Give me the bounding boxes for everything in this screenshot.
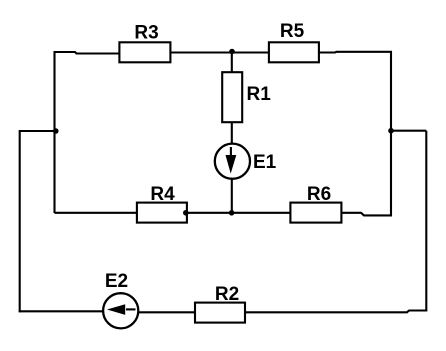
svg-text:R5: R5 [280,21,305,42]
svg-text:R3: R3 [134,23,158,44]
wire R1 to E1 [231,122,233,144]
node center bottom junction [229,210,235,216]
svg-text:R4: R4 [150,184,175,205]
node left junction [53,128,59,134]
current source E2 [103,271,138,328]
wire top-left horizontal [55,52,121,54]
wire right vertical [390,51,392,215]
wire left connector horizontal [20,130,55,132]
wire far-left vertical [19,130,21,312]
wire E2 to left [19,310,103,312]
svg-text:E1: E1 [253,152,277,173]
wire top middle horizontal [170,51,269,53]
wire R4 to center node [187,212,291,214]
svg-text:E2: E2 [105,271,128,292]
node top-center junction [229,49,235,55]
resistor R2 [195,284,245,323]
wire bottom right [246,311,427,313]
current source E1 [215,144,277,179]
resistor R1 [222,72,271,122]
wire left inner vertical [53,51,55,213]
wire R4 row left [55,212,138,214]
svg-text:R1: R1 [247,84,272,105]
svg-text:R2: R2 [215,284,239,305]
svg-text:R6: R6 [307,184,331,205]
wire E1 to center node [231,179,233,213]
wire center vertical R1 branch [231,51,233,73]
wire R6 right [341,213,392,216]
resistor R5 [269,21,319,62]
wire right outer vertical [425,131,427,312]
node right junction [388,128,394,134]
resistor R6 [290,184,341,223]
resistor R4 [137,184,187,223]
resistor R3 [119,23,170,63]
node R4 right terminal [183,210,189,216]
wire right node horizontal [391,130,426,132]
wire top-right horizontal [319,51,393,54]
wire R2 to E2 [138,311,196,313]
